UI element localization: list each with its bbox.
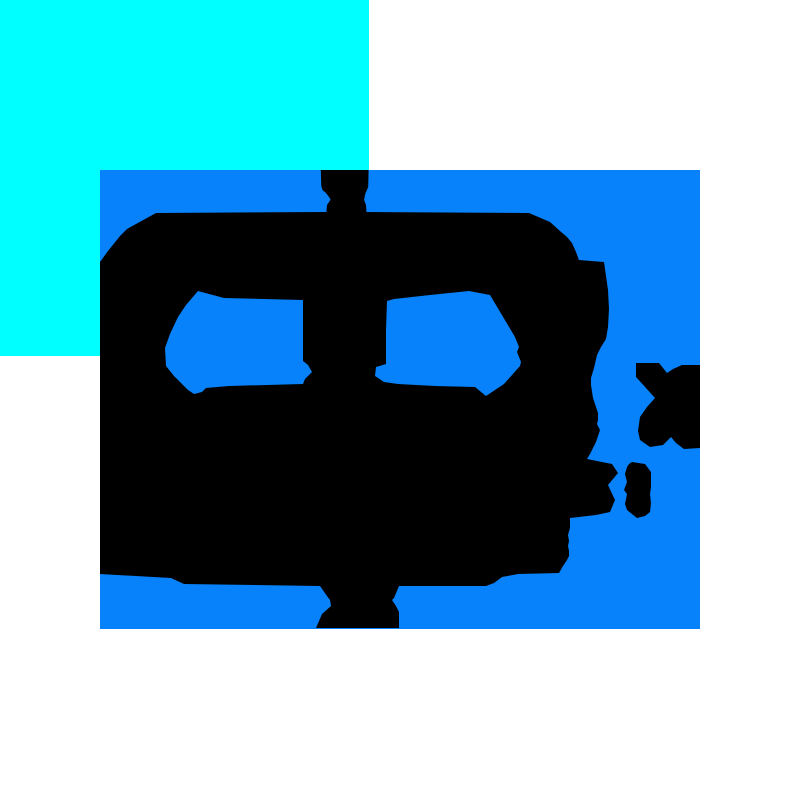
blue background [100, 170, 700, 629]
small cross blob [624, 462, 651, 518]
x sparkle with right band [636, 363, 700, 449]
left eye window [165, 291, 312, 394]
robot body with antenna and bottom foot [100, 170, 618, 628]
blue illustration panel [100, 170, 700, 629]
cyan rectangle [0, 0, 369, 356]
right eye window [375, 291, 521, 396]
